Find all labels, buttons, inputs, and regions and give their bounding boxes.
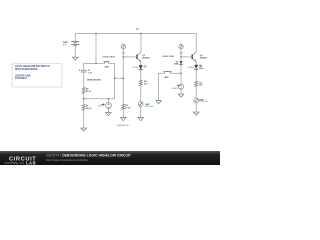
svg-text:V(SW1)=0.000: V(SW1)=0.000: [117, 125, 129, 127]
svg-text:0.000 V: 0.000 V: [172, 88, 179, 90]
svg-text:2N3904: 2N3904: [200, 57, 208, 60]
svg-text:10.33 mA: 10.33 mA: [145, 105, 154, 108]
svg-text:LOGIC LOW: LOGIC LOW: [162, 56, 174, 58]
svg-text:10.33m: 10.33m: [132, 67, 139, 69]
svg-text:10/10/2012: 10/10/2012: [15, 78, 28, 80]
svg-text:LAB: LAB: [26, 161, 36, 165]
svg-text:LOGIC HIGH/LOW PIN SWITCH: LOGIC HIGH/LOW PIN SWITCH: [15, 66, 50, 68]
svg-text:DEBOUNCING: DEBOUNCING: [87, 80, 101, 82]
svg-text:10 kO: 10 kO: [86, 108, 92, 110]
svg-text:WITH DEBOUNCING: WITH DEBOUNCING: [15, 69, 38, 71]
svg-text:2N3904: 2N3904: [142, 57, 150, 60]
svg-text:mkt1974 | DEBOUNCING LOGIC HIG: mkt1974 | DEBOUNCING LOGIC HIGH/LOW CIRC…: [46, 154, 131, 158]
svg-text:0.000 V: 0.000 V: [98, 106, 105, 108]
svg-text:10 kO: 10 kO: [125, 107, 131, 109]
svg-text:47 kO: 47 kO: [86, 90, 92, 93]
svg-text:LOGIC HIGH: LOGIC HIGH: [102, 56, 115, 58]
svg-text:10.33 mA: 10.33 mA: [199, 100, 208, 103]
svg-text:http://www.circuitlab.com/c/4e: http://www.circuitlab.com/c/4e2rq: [46, 158, 88, 162]
svg-text:10.33m: 10.33m: [188, 67, 195, 69]
